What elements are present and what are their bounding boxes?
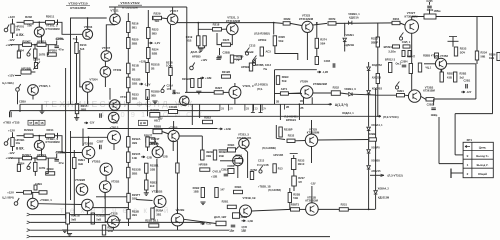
svg-text:R2З4: R2З4 xyxy=(481,51,488,55)
svg-text:R2З2: R2З2 xyxy=(333,86,340,90)
svg-text:Пм: Пм xyxy=(264,68,268,71)
bus wire y116 xyxy=(157,115,379,117)
wire y113 corner xyxy=(455,113,493,115)
capacitor C306 xyxy=(54,159,59,161)
svg-text:ХОДУВ2: ХОДУВ2 xyxy=(372,64,383,67)
svg-text:(Л,В-R2ВВ2): (Л,В-R2ВВ2) xyxy=(254,32,270,36)
svg-text:R2ЗТТ: R2ЗТТ xyxy=(132,193,141,197)
svg-text:ДАЛ, 1ВУ: ДАЛ, 1ВУ xyxy=(214,215,227,219)
junction rail2 xyxy=(34,44,36,46)
svg-text:R2ЗЗВ: R2ЗЗВ xyxy=(132,168,141,172)
svg-text:VT204: VT204 xyxy=(89,78,98,82)
svg-text:R274: R274 xyxy=(320,38,327,42)
wire VT219 collector up xyxy=(234,83,236,86)
resistor C2ЗЗ xyxy=(288,193,291,203)
svg-text:1-10мВ: 1-10мВ xyxy=(245,50,254,54)
resistor R147 xyxy=(215,188,218,198)
wire R2З7 down xyxy=(293,186,295,191)
resistor R209 xyxy=(47,53,56,56)
svg-text:ЗкВ: ЗкВ xyxy=(78,162,83,166)
wire x252 short down xyxy=(252,104,254,112)
svg-text:47м: 47м xyxy=(59,161,64,165)
resistor HP208 xyxy=(21,70,31,74)
svg-text:+ГЛВЗ: +ГЛВЗ xyxy=(3,121,11,124)
ground bottom left xyxy=(67,234,72,237)
wire R225 left xyxy=(217,33,222,45)
trimmer R204 xyxy=(27,49,31,57)
svg-text:+12V: +12V xyxy=(8,15,15,19)
wire x453 up xyxy=(452,37,454,42)
resistor R283 xyxy=(454,72,457,82)
wire mid to R264 xyxy=(336,22,396,25)
diode VD3Ч6 c xyxy=(367,166,371,169)
resistor R2ВЗТ xyxy=(146,138,155,143)
svg-text:ЧТ: ЧТ xyxy=(29,122,33,125)
svg-text:R2ВА: R2ВА xyxy=(156,208,163,212)
svg-text:С2ВЧ: С2ВЧ xyxy=(401,60,408,64)
svg-text:VT203-VT210: VT203-VT210 xyxy=(68,2,88,6)
svg-text:С2В1: С2В1 xyxy=(464,79,471,83)
wire VT302 down xyxy=(113,144,115,150)
svg-text:(Л,З-НОМЕ): (Л,З-НОМЕ) xyxy=(262,147,276,150)
wire VT318 right xyxy=(179,135,202,137)
vertical x65 lower xyxy=(65,186,67,219)
resistor R2З7 xyxy=(292,176,297,186)
svg-text:НР21ЗВ: НР21ЗВ xyxy=(274,154,284,157)
svg-text:R2ВЗ: R2ВЗ xyxy=(150,180,157,184)
svg-text:R2З1В: R2З1В xyxy=(151,63,160,67)
svg-text:R2З1: R2З1 xyxy=(341,202,348,206)
wire +12V to R201 xyxy=(12,19,14,24)
svg-text:КТ3102ВМ: КТ3102ВМ xyxy=(46,27,61,31)
wire ladder B d xyxy=(127,178,129,194)
wire VT224 right xyxy=(313,92,331,94)
svg-text:АСЗ: АСЗ xyxy=(266,50,272,54)
svg-text:АВ5215: АВ5215 xyxy=(371,170,381,173)
wire x192 down xyxy=(191,104,193,125)
svg-text:2ВВР: 2ВВР xyxy=(371,40,378,44)
resistor R2З5 xyxy=(127,92,130,103)
wire ladder x128 c xyxy=(127,49,129,121)
svg-text:НР2ВВ, С21З: НР2ВВ, С21З xyxy=(255,64,271,67)
svg-text:56В: 56В xyxy=(481,54,486,58)
resistor B21B xyxy=(169,68,172,76)
svg-text:VТ2ВВ5: VТ2ВВ5 xyxy=(75,178,86,182)
svg-text:R21В: R21В xyxy=(132,64,139,68)
resistor R270 xyxy=(328,22,336,25)
svg-text:VТ2ВВ5: VТ2ВВ5 xyxy=(83,142,94,146)
svg-text:2З: 2З xyxy=(255,107,258,111)
resistor R226 xyxy=(273,36,276,46)
capacitor C206 xyxy=(54,46,59,48)
resistor R2В1 xyxy=(227,205,236,208)
trimmer small xyxy=(252,56,256,64)
diode VD3A4-2 xyxy=(374,191,378,194)
svg-text:ЧЛВ-VТЗВЗ: ЧЛВ-VТЗВЗ xyxy=(434,55,449,58)
wire VT318 emitter down xyxy=(172,140,174,151)
wire rail2B c xyxy=(46,157,57,159)
diode VD201 xyxy=(343,38,347,41)
wire to R285 xyxy=(375,94,397,96)
svg-text:ХОДУВЗ: ХОДУВЗ xyxy=(372,88,383,91)
wire input rail A xyxy=(17,21,25,23)
wire rail B2 xyxy=(16,191,23,193)
svg-text:КТ2В2ВМ: КТ2В2ВМ xyxy=(307,131,320,135)
svg-text:VD2В1: VD2В1 xyxy=(346,33,355,37)
svg-text:1ВВ: 1ВВ xyxy=(193,190,198,194)
wire VT227 emitter long down xyxy=(411,33,413,90)
svg-text:R2ЗВ2: R2ЗВ2 xyxy=(24,128,34,132)
svg-text:С204: С204 xyxy=(18,48,25,52)
wire x299 down xyxy=(298,104,300,120)
svg-text:ЗВ1З: ЗВ1З xyxy=(298,162,305,166)
resistor R21ВЗ xyxy=(198,79,201,88)
wire to C304 xyxy=(18,158,20,164)
wire rail2 a xyxy=(11,44,23,46)
svg-text:+12У: +12У xyxy=(206,222,213,226)
wire R2З1 left xyxy=(275,93,281,95)
svg-text:-1,2V: -1,2V xyxy=(154,41,161,45)
svg-text:R2ЗЗ: R2ЗЗ xyxy=(132,93,139,97)
diode VD2В5 xyxy=(367,91,371,94)
wire VT320 down xyxy=(177,226,179,230)
wire x247 down xyxy=(247,152,249,178)
resistor R306 B xyxy=(37,156,46,159)
ground mid bottom xyxy=(200,202,205,205)
svg-text:VT203: VT203 xyxy=(84,25,93,29)
wire into table row2 xyxy=(455,154,463,156)
svg-text:10к: 10к xyxy=(16,141,21,145)
wire to ground below bus xyxy=(41,104,43,111)
svg-text:R2ЗВ: R2ЗВ xyxy=(293,192,300,196)
wire between diodes b xyxy=(368,154,370,165)
stub xyxy=(9,111,11,112)
svg-text:R2ВТЗ: R2ВТЗ xyxy=(291,202,300,206)
wire VT223 emitter down xyxy=(306,33,308,61)
svg-text:1К7В: 1К7В xyxy=(39,166,46,170)
wire VT31A down xyxy=(104,193,106,199)
wire VT207 to VT209 xyxy=(104,61,106,66)
svg-text:КТ361ВМ: КТ361ВМ xyxy=(423,89,435,93)
svg-text:2Л: 2Л xyxy=(229,107,232,111)
svg-text:1В: 1В xyxy=(300,100,303,103)
svg-text:R2ЗВ1: R2ЗВ1 xyxy=(150,163,159,167)
svg-text:ХОВР5: ХОВР5 xyxy=(371,147,380,150)
svg-text:АД521В: АД521В xyxy=(344,43,354,47)
svg-text:1ВВ: 1ВВ xyxy=(132,82,137,86)
wire VT308 to VT31A xyxy=(105,175,107,181)
capacitor C283 xyxy=(431,108,436,110)
resistor R3З1В xyxy=(127,137,130,148)
resistor R3ЗЗ xyxy=(127,152,130,163)
transistor VT309 B xyxy=(152,147,163,158)
svg-text:VD2В4, З: VD2В4, З xyxy=(344,87,356,91)
wire C225 down xyxy=(429,9,431,14)
resistor R313 B xyxy=(73,158,76,169)
wire VD201 branch xyxy=(344,23,346,37)
wire to VT224 xyxy=(288,92,300,95)
svg-text:+Т21В: +Т21В xyxy=(109,212,117,216)
wire R2ВЗ to gnd xyxy=(145,190,147,193)
bus y110 ext xyxy=(218,110,220,112)
resistor R225 xyxy=(222,43,231,46)
wire mid bus y22 xyxy=(198,22,273,24)
resistor R2З2В btm xyxy=(201,150,204,160)
wire VT231 to R281 xyxy=(441,69,443,72)
svg-text:VТ2В5, 1: VТ2В5, 1 xyxy=(39,84,51,88)
transistor VT330 xyxy=(306,203,319,216)
wire into R2B3mid xyxy=(220,160,235,162)
ground R219 xyxy=(198,49,203,52)
junction above VT201 xyxy=(38,21,40,23)
resistor R275 xyxy=(315,57,318,65)
wire VT325 right long xyxy=(318,139,369,142)
wire ladder B c xyxy=(127,163,129,168)
svg-text:С225: С225 xyxy=(426,0,433,3)
transistor VT221 xyxy=(227,23,239,35)
svg-text:1К7В: 1К7В xyxy=(39,53,46,57)
transistor VT2ВЗ xyxy=(239,138,249,148)
wire to C204 xyxy=(18,45,20,51)
wire R263 down xyxy=(377,47,379,74)
wire ladder x148 a xyxy=(147,10,149,28)
wire ladder B a xyxy=(127,120,129,137)
wire top rail right xyxy=(167,6,187,8)
transistor VT31А xyxy=(99,181,111,193)
wire R2З1 right xyxy=(348,208,375,210)
wire R2B7 to VT219 xyxy=(223,91,229,93)
trimmer HP2BB xyxy=(249,63,252,71)
svg-text:ЧЦ.1: ЧЦ.1 xyxy=(426,67,432,70)
svg-text:R21ВВ: R21ВВ xyxy=(150,108,159,112)
svg-text:VT215-VT222: VT215-VT222 xyxy=(120,1,140,5)
ground B lower xyxy=(62,230,67,233)
chassis bar near table xyxy=(450,169,452,179)
capacitor C21B mid xyxy=(333,63,335,68)
resistor R2ЗВ2 btm xyxy=(213,150,216,160)
resistor R265 body xyxy=(393,45,400,48)
wire R263 branch xyxy=(377,23,379,37)
resistor R21В5 xyxy=(222,75,231,78)
svg-text:R218: R218 xyxy=(213,23,220,27)
resistor C226 body xyxy=(403,45,410,48)
resistor RB2a xyxy=(24,191,32,194)
svg-text:Общий: Общий xyxy=(478,172,487,176)
wire VT217 emitter right xyxy=(177,22,199,24)
svg-text:ЗДм: ЗДм xyxy=(229,229,234,232)
svg-text:VT217: VT217 xyxy=(170,9,179,13)
resistor R2ВЗ 2ВВР xyxy=(376,74,379,84)
resistor BP212 xyxy=(389,63,392,73)
wire VT231 emitter right xyxy=(447,63,476,65)
resistor R201 input A xyxy=(11,24,14,33)
wire R2BB4 to VT2B3 xyxy=(236,147,239,150)
svg-text:С2ВЗ: С2ВЗ xyxy=(221,168,228,172)
transistor VT205 follower xyxy=(28,85,39,96)
ground mid xyxy=(196,91,201,94)
svg-text:С2ВЧ: С2ВЧ xyxy=(33,58,40,62)
svg-text:R2В1В: R2В1В xyxy=(71,213,80,217)
resistor R286 xyxy=(426,98,434,101)
wire small xyxy=(440,69,442,72)
resistor R264 xyxy=(392,21,400,24)
svg-text:(Л,З-VТЗ12): (Л,З-VТЗ12) xyxy=(388,174,403,178)
capacitor C2В9 b xyxy=(233,213,240,219)
svg-text:R2ВЗ: R2ВЗ xyxy=(235,153,242,157)
svg-text:НР2В6: НР2В6 xyxy=(199,162,208,166)
input jack XS2 channel B xyxy=(4,138,9,145)
svg-text:КТ3102ВМ: КТ3102ВМ xyxy=(299,17,314,21)
resistor R274 xyxy=(315,38,318,48)
long vertical x70 B xyxy=(70,131,72,200)
svg-text:R2ЗВ2: R2ЗВ2 xyxy=(219,150,228,154)
wire R2ЗЗ up xyxy=(293,155,295,159)
diode VD3Ч4 a xyxy=(367,127,371,130)
transistor VT305 B xyxy=(82,199,94,211)
svg-text:А ВХ.: А ВХ. xyxy=(16,33,24,37)
svg-text:R2011: R2011 xyxy=(46,15,55,19)
svg-text:R27В: R27В xyxy=(329,17,336,21)
wire R219 R221 join xyxy=(198,46,204,48)
svg-text:ЗЛ: ЗЛ xyxy=(298,180,302,184)
wire VT221 emitter down xyxy=(231,35,233,40)
svg-text:51В: 51В xyxy=(279,39,284,43)
svg-text:А(1,З,Ч): А(1,З,Ч) xyxy=(335,103,348,107)
svg-text:5к6: 5к6 xyxy=(80,47,85,51)
svg-text:2В: 2В xyxy=(132,68,135,72)
capacitor C207 xyxy=(217,56,222,58)
svg-text:R2ЗЗ5: R2ЗЗ5 xyxy=(132,152,141,156)
transistor VT306 xyxy=(76,184,88,196)
wire VT318 collector up xyxy=(173,121,175,130)
wire R2ЗЗ down xyxy=(293,170,295,177)
resistor R281 xyxy=(440,72,443,82)
wire input to VT303B base xyxy=(58,136,83,153)
svg-text:VT209: VT209 xyxy=(113,68,122,72)
svg-text:КТ3102ВМ: КТ3102ВМ xyxy=(226,19,241,23)
svg-text:НВ, 1: НВ, 1 xyxy=(151,141,158,145)
svg-text:R2ВВ 4Т: R2ВВ 4Т xyxy=(423,54,434,58)
bus pin ticks xyxy=(219,104,221,110)
wire R215 to ground xyxy=(76,114,78,118)
junction x368 bottom xyxy=(368,209,370,211)
svg-text:14В: 14В xyxy=(132,156,137,160)
resistor R2BB7 xyxy=(153,129,162,134)
svg-text:ХОВА4, 1: ХОВА4, 1 xyxy=(371,124,383,127)
resistor R2В3 xyxy=(233,56,242,59)
resistor R203 xyxy=(46,21,55,24)
resistor R302 xyxy=(24,134,33,137)
wire to R209 xyxy=(47,45,48,55)
ground mid small xyxy=(152,101,157,104)
wire x439 down to table xyxy=(438,117,440,164)
transistor VT212 xyxy=(109,100,120,111)
resistor R216 xyxy=(127,22,130,33)
wire top right rail xyxy=(412,16,493,18)
svg-text:+12В: +12В xyxy=(139,60,146,64)
wire to VT212 xyxy=(109,88,111,100)
capacitor C225 xyxy=(427,6,432,8)
svg-text:10к: 10к xyxy=(16,28,21,32)
wire C225 stub xyxy=(429,2,431,5)
svg-text:+12В: +12В xyxy=(211,174,217,178)
trimmer bal A xyxy=(190,63,195,70)
resistor R205 on rail xyxy=(23,43,32,46)
transistor VT303 B xyxy=(82,146,95,159)
transistor VT213 xyxy=(180,96,190,106)
resistor R2108 xyxy=(150,113,160,118)
svg-text:R226: R226 xyxy=(279,35,286,39)
wire VT2B3 emitter xyxy=(244,149,248,153)
transistor VT314 xyxy=(108,216,120,228)
resistor R2ВЗТ 51В xyxy=(276,76,279,85)
wire to R207 xyxy=(34,45,36,49)
table texts xyxy=(465,146,470,148)
resistor R217 xyxy=(260,47,263,56)
wire R313B up xyxy=(73,150,75,158)
boxed pin label D1B xyxy=(138,120,147,125)
svg-text:ЗВ1: ЗВ1 xyxy=(156,212,162,216)
resistor R21В2 xyxy=(191,79,194,88)
svg-text:2Ч: 2Ч xyxy=(263,107,266,111)
wire VT224 emitter to bus xyxy=(303,98,305,105)
svg-text:ХОДА4, 1: ХОДА4, 1 xyxy=(342,111,354,115)
wire VT227 collector up xyxy=(411,17,413,20)
svg-text:ХОВВ5: ХОВВ5 xyxy=(371,159,380,162)
svg-text:ЗДВ: ЗДВ xyxy=(241,230,246,233)
wire +12V B xyxy=(12,132,14,137)
svg-text:(Л,З-R2ВЗ): (Л,З-R2ВЗ) xyxy=(268,189,281,192)
wire corner to R2З2b xyxy=(276,138,285,139)
wire to VT302 base xyxy=(71,136,108,138)
svg-text:ХР1: ХР1 xyxy=(467,138,473,142)
wire VT330 collector up xyxy=(311,186,313,203)
wire VT217 emitter down to B21B xyxy=(170,25,172,68)
resistor R2В1В xyxy=(66,213,70,224)
resistor R2З1 mid xyxy=(280,92,288,95)
resistor near VT320 xyxy=(176,163,179,173)
wire ladder B e0 xyxy=(127,202,129,209)
trimmer C21A xyxy=(161,85,165,93)
wire x455 down xyxy=(454,114,456,155)
svg-text:R2В9: R2В9 xyxy=(47,167,54,171)
wire VD201 down xyxy=(344,42,346,52)
junction above VT301 xyxy=(38,135,40,137)
wire R313B down xyxy=(73,169,75,217)
bottom long wire 1 xyxy=(27,213,31,216)
transistor VT308 B xyxy=(100,163,112,175)
svg-text:АЗТ1: АЗТ1 xyxy=(281,87,288,91)
horizontal y69 xyxy=(275,69,317,71)
svg-text:VТ22В: VТ22В xyxy=(176,208,185,212)
svg-text:2В: 2В xyxy=(151,67,154,71)
wire ladder B b xyxy=(127,147,129,152)
arrow bus A xyxy=(328,103,332,105)
wire C209 stub2 xyxy=(19,104,21,112)
svg-text:СОВР: СОВР xyxy=(227,165,234,168)
svg-text:+12V: +12V xyxy=(8,129,15,133)
resistor R309 B xyxy=(46,172,55,175)
svg-text:VТ2ВЧ: VТ2ВЧ xyxy=(300,80,309,84)
resistor R285 xyxy=(397,94,405,97)
resistor R3ЗВ2 xyxy=(127,209,130,219)
wire VT3B5 to VT305B base xyxy=(38,203,82,206)
svg-text:В ВХ.: В ВХ. xyxy=(16,146,24,150)
wire x276 down xyxy=(275,125,277,138)
wire VT211 collector up xyxy=(114,7,116,14)
svg-text:(Л,З-R2ВЗ): (Л,З-R2ВЗ) xyxy=(255,83,268,86)
resistor R2В2 xyxy=(203,120,213,123)
